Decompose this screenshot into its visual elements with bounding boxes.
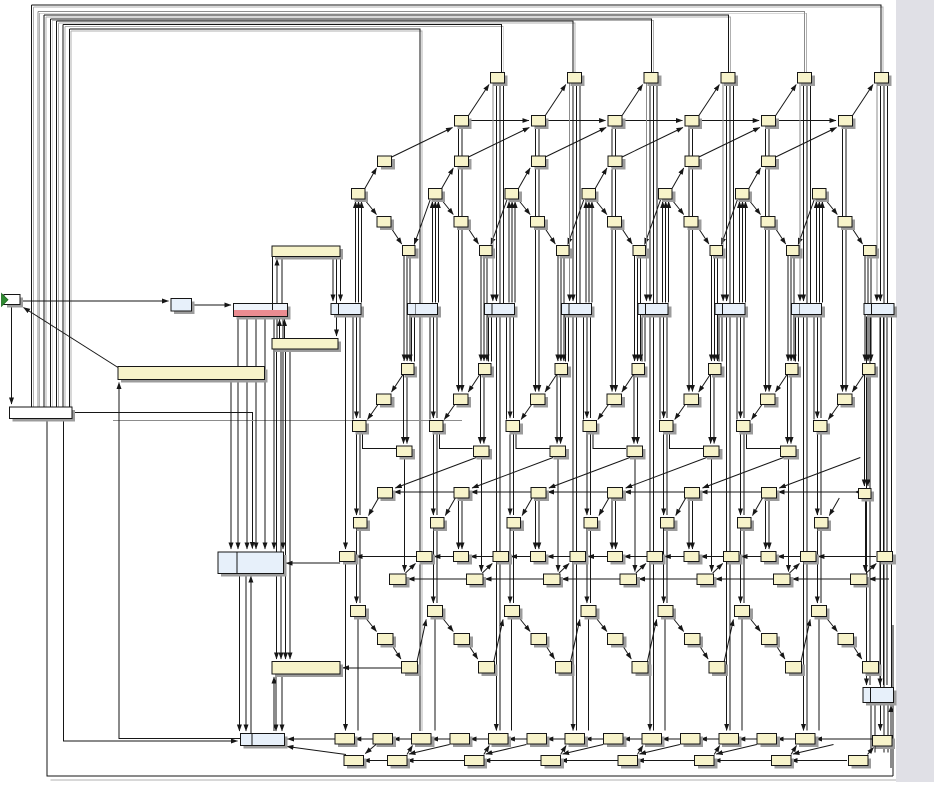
wire G6 up to D6 — [821, 202, 823, 303]
wire G4 up to D4 — [665, 202, 667, 303]
wire D5 to C5 diagonal — [748, 168, 761, 190]
node J0 — [353, 421, 370, 435]
wire T to U diagonal 2 — [486, 745, 527, 755]
wire F4 down to H4 — [713, 256, 715, 362]
wire H3 down to K3 — [633, 375, 635, 444]
wire M3 down to Q3 — [589, 529, 591, 604]
wire G4 down to H3 edge — [644, 315, 646, 362]
wire G3 up to D3 — [585, 202, 587, 303]
wire T chain arrow 2 — [432, 738, 436, 740]
node Q2 — [504, 606, 522, 620]
wire G5 down to J5 — [743, 315, 745, 419]
wire red register to blue selector 1 — [237, 317, 239, 550]
wire L6 to M6 diagonal — [829, 498, 839, 516]
node J6 — [813, 421, 830, 435]
node U3 — [541, 756, 564, 769]
wire H0 to I0 diagonal — [392, 375, 404, 393]
wire G3 down to J3 — [586, 315, 588, 419]
wire A2 column segment 1 — [645, 84, 647, 302]
node C0 — [378, 156, 395, 170]
wire C3 to B3 diagonal — [622, 128, 683, 158]
wire Q0 to R0 diagonal — [365, 617, 377, 632]
wire A5 column segment 3 — [883, 84, 885, 304]
wire start down to collector bar — [11, 305, 13, 405]
wire B3 to B4 horizontal — [699, 120, 759, 122]
wire L3 column down to N1 — [691, 500, 693, 550]
node C3 — [608, 156, 625, 170]
wire B4 column down to I — [765, 169, 767, 392]
wire H0 down to K0 — [403, 375, 405, 444]
wire bus line 7 left vertical — [68, 29, 70, 407]
node M3 — [584, 518, 601, 532]
wire B2 to B3 horizontal — [622, 120, 682, 122]
wire U to T diagonal 4 — [637, 746, 643, 755]
wire G0 down to N2x — [345, 315, 347, 550]
wire D6 to F5 diagonal — [798, 200, 814, 245]
node P0 — [390, 574, 410, 588]
wire G6 down to H5 edge — [795, 315, 797, 362]
node F3 — [633, 246, 649, 259]
wire L3 to M3 diagonal — [599, 498, 609, 516]
node E6 — [838, 217, 855, 231]
node Q4 — [658, 606, 676, 620]
node K2 — [550, 446, 569, 460]
wire Q6 down to bottom row — [818, 617, 820, 731]
wire E3 up to C3 — [688, 126, 690, 169]
wire H6 down to L6x — [863, 375, 865, 487]
wire T chain arrow 6 — [585, 738, 589, 740]
wire J5 to K5 connector — [747, 432, 780, 448]
node E5 — [761, 217, 778, 231]
wire B2 column down to I — [611, 169, 613, 392]
node N2x-0 — [340, 552, 359, 565]
wire P2 to N22 diagonal — [559, 564, 569, 574]
wire B0 to B1 horizontal — [469, 120, 529, 122]
mid wide bar — [272, 339, 341, 353]
wire T chain arrow 4 — [508, 738, 512, 740]
wire G1 down to J1 — [432, 315, 434, 419]
wire mid bar down to low bar — [276, 349, 278, 659]
wire gray horizontal net — [113, 419, 462, 421]
blue bar G1 — [408, 304, 441, 318]
node F2 — [556, 246, 572, 259]
wire B4 to A4 diagonal — [776, 85, 797, 116]
wire U to T diagonal 2 — [484, 746, 490, 755]
node D3 — [582, 189, 599, 203]
node D4 — [659, 189, 676, 203]
wire C5 to B5 diagonal — [776, 128, 837, 158]
node T3 — [450, 734, 473, 748]
wire D3 to F2 diagonal — [568, 200, 584, 245]
wire G5 down to H4 edge — [721, 315, 723, 362]
wire H1 to I1 diagonal — [468, 375, 480, 393]
wire H2 down to K2 — [560, 375, 562, 444]
wire A2 column to bottom row — [652, 315, 654, 731]
node T0 — [335, 734, 358, 748]
wire L2 column down to N1 — [611, 500, 613, 550]
wire F6 down to H6 — [867, 256, 869, 362]
node A0 — [491, 73, 508, 87]
start node IN — [2, 294, 24, 308]
wire G4 down to J4 extra — [659, 315, 661, 420]
collector bar — [10, 407, 76, 422]
node I1 — [454, 394, 472, 408]
wire bus line 4 shadow — [52, 21, 653, 73]
wire U chain arrow — [561, 760, 565, 762]
long wide bar — [118, 367, 268, 383]
wire F3 down to H3 — [640, 256, 642, 362]
node Q1 — [428, 606, 446, 620]
wire D5 to E5 diagonal — [749, 200, 761, 215]
wire U to T diagonal 1 — [407, 746, 413, 755]
wire right blue bar down — [874, 703, 876, 753]
wire F2 down to H2 — [560, 256, 562, 362]
wire G0 up to D0 — [358, 202, 360, 303]
wire F0 down to H0 — [409, 256, 411, 362]
node E4 — [684, 217, 701, 231]
wire A3 column to bottom row — [729, 315, 731, 731]
wire B3 to A3 diagonal — [699, 85, 720, 116]
wire K1 to L0 long diagonal — [395, 458, 476, 489]
wire G2 down to H1 edge — [488, 315, 490, 362]
wire G0 down to J0 — [356, 315, 358, 419]
wire top bar down to red register — [281, 257, 283, 304]
wire Q5 down to bottom row — [741, 617, 743, 731]
wire red register to blue selector 6 — [282, 317, 284, 550]
wire A3 column segment 2 — [726, 84, 728, 302]
wire A4 column to bottom row — [803, 315, 805, 731]
wire D0 to C0 diagonal — [364, 168, 377, 190]
wire U to T diagonal 3 — [561, 746, 567, 755]
wire E1 up to C1 — [534, 126, 536, 169]
wire U chain arrow — [484, 760, 488, 762]
wire N chain arrow b5 — [818, 556, 822, 558]
wire F6 down to H6 — [864, 256, 866, 362]
wire Q3 down to bottom row — [587, 617, 589, 731]
wire G2 up to D2 — [511, 202, 513, 303]
node N1-3 — [684, 552, 702, 565]
wire R3 to S3 diagonal — [622, 645, 631, 660]
node T9 — [680, 734, 703, 748]
wire T to U diagonal 6 — [793, 745, 834, 755]
wire bottom up to low bar — [273, 677, 275, 731]
wire A2 column to bottom row — [649, 315, 651, 731]
wire D4 to C4 diagonal — [671, 168, 684, 190]
wire G2 up to D2 — [514, 202, 516, 303]
wire G5 down to J5 — [740, 315, 742, 419]
node N2-3 — [647, 552, 666, 565]
wire P row chain — [408, 578, 889, 580]
wire P0 to N20 diagonal — [406, 564, 416, 574]
wire L4 column down to N1 — [768, 500, 770, 550]
node M1 — [430, 518, 447, 532]
wire Q4 down to bottom row — [664, 617, 666, 731]
wire G0 up to D0 — [361, 202, 363, 303]
node N1-2 — [607, 552, 625, 565]
wire L0 to M0 diagonal — [369, 498, 379, 516]
wire E3 to F3 diagonal — [621, 227, 632, 244]
wire right blue bar down — [887, 703, 889, 753]
wire K6 to L5 long diagonal — [779, 458, 860, 489]
input latch node — [171, 299, 195, 315]
wire A4 column segment 1 — [799, 84, 801, 302]
wire S2 to Q3 diagonal — [571, 620, 580, 662]
wire F1 down to H1 — [486, 256, 488, 362]
wire P1 to N21 diagonal — [482, 564, 492, 574]
node J1 — [429, 421, 446, 435]
wire G5 up to D5 — [745, 202, 747, 303]
blue bar G4 — [638, 304, 671, 318]
wire B1 to A1 diagonal — [545, 85, 566, 116]
node P4 — [697, 574, 717, 588]
wire B2 to A2 diagonal — [622, 85, 643, 116]
wire L0 column down to N1 — [461, 500, 463, 550]
wire L row chain — [394, 491, 857, 493]
wire T chain arrow 9 — [700, 738, 704, 740]
wire B0 to A0 diagonal — [469, 85, 490, 116]
node R2 — [531, 634, 550, 648]
wire J6 down to M6 — [820, 432, 822, 515]
wire Q1 down to bottom row — [434, 617, 436, 731]
wire bus line 4 left vertical shadow — [51, 21, 53, 407]
wire K3 to L2 long diagonal — [549, 458, 630, 489]
node T13 — [872, 736, 895, 750]
node D0 — [352, 189, 369, 203]
wire A5 column segment 2 — [879, 84, 881, 302]
wire T to U diagonal 5 — [716, 745, 757, 755]
node B1 — [531, 116, 548, 130]
node P1 — [467, 574, 487, 588]
wire E2 up to C2 — [615, 126, 617, 169]
wire N chain arrow a0 — [470, 556, 474, 558]
wire L4 column down to N1 — [765, 500, 767, 550]
wire F5 down to H5 — [787, 256, 789, 362]
wire red register to blue selector 3 — [255, 317, 257, 550]
wire T chain arrow 1 — [393, 738, 397, 740]
wire G3 up to D3 — [588, 202, 590, 303]
wire H5 down to K5 — [790, 375, 792, 444]
wire bottom bar up to blue selector — [250, 576, 252, 734]
wire B0 column down to I — [461, 169, 463, 392]
node H3 — [632, 364, 648, 378]
wire N chain arrow a3 — [701, 556, 705, 558]
wire G6 down to J6 — [816, 315, 818, 419]
wire bus line 6 top horizontal + drop — [63, 25, 501, 73]
wire start to input node — [21, 300, 169, 302]
node S4 — [709, 662, 728, 677]
wire R0 to S0 diagonal — [392, 645, 401, 660]
wire right column down to blue bar B 3 — [883, 317, 885, 686]
node J4 — [660, 421, 677, 435]
wire right blue bar down — [883, 703, 885, 753]
node N2-5 — [800, 552, 819, 565]
wire L2 to M2 diagonal — [522, 498, 532, 516]
node C5 — [762, 156, 779, 170]
wire L chain arrow 6 — [855, 491, 859, 493]
node A2 — [644, 73, 661, 87]
wire right blue bar down — [870, 703, 872, 753]
node L1 — [454, 488, 472, 502]
wire bottom to long bar feedback — [119, 383, 240, 739]
node D5 — [736, 189, 753, 203]
wire A0 column to bottom row — [495, 315, 497, 731]
wire A1 column segment 1 — [569, 84, 571, 302]
wire bus line 4 left vertical — [49, 19, 51, 407]
wire L5 to M5 diagonal — [753, 498, 763, 516]
wire F6 down to H6 — [870, 256, 872, 362]
wire T to U diagonal 3 — [563, 745, 604, 755]
node U2 — [464, 756, 487, 769]
wire bus line 5 top horizontal + drop — [57, 21, 573, 72]
wire A0 column segment 4 — [502, 84, 504, 304]
node C1 — [455, 156, 472, 170]
wire G1 up to D1 — [431, 202, 433, 303]
wire B2 column down to I — [615, 169, 617, 392]
node P3 — [620, 574, 640, 588]
wire long bar to blue selector a — [230, 380, 232, 550]
node L3 — [608, 488, 626, 502]
wire Q5 to R5 diagonal — [749, 617, 761, 632]
wire H1 down to K1 — [479, 375, 481, 444]
wire A3 column segment 4 — [733, 84, 735, 304]
node D1 — [428, 189, 445, 203]
wire R2 to S2 diagonal — [545, 645, 554, 660]
wire A1 column segment 2 — [572, 84, 574, 302]
node L2 — [531, 488, 549, 502]
wire U chain arrow — [407, 760, 411, 762]
node N2-4 — [724, 552, 743, 565]
node I0 — [377, 394, 395, 408]
node B4 — [762, 116, 779, 130]
wire B1 column down to I — [538, 169, 540, 392]
wire T to U diagonal 4 — [639, 745, 680, 755]
wire T chain arrow 8 — [662, 738, 666, 740]
wire G2 down to H1 edge — [491, 315, 493, 362]
node S2 — [555, 662, 574, 677]
wire top bar to mid bar — [336, 257, 338, 337]
wire D0 to E0 diagonal — [365, 200, 377, 215]
wire A4 column segment 4 — [810, 84, 812, 304]
wire T chain arrow 3 — [470, 738, 474, 740]
node I4 — [684, 394, 702, 408]
wire Q6 to R6 diagonal — [825, 617, 837, 632]
wire P chain arrow 6 — [869, 578, 873, 580]
wire P5 to N25 diagonal — [790, 564, 800, 574]
wire G6 down to J6 extra — [813, 315, 815, 420]
wire U6 to T13 diagonal — [868, 748, 874, 755]
wire L1 column down to N1 — [534, 500, 536, 550]
node M2 — [507, 518, 524, 532]
wire A2 column segment 3 — [652, 84, 654, 304]
wire L0 column down to N1 — [458, 500, 460, 550]
wire S0 to low bar horizontal — [343, 667, 402, 669]
wire G4 down to J4 — [666, 315, 668, 419]
wire L chain arrow 4 — [701, 491, 705, 493]
wire Q0 down to bottom row — [357, 617, 359, 731]
wire F2 down to H2 — [557, 256, 559, 362]
wire bus line 4 top horizontal + drop — [50, 19, 651, 73]
wire G6 up to D6 — [815, 202, 817, 303]
node N1-1 — [531, 552, 549, 565]
wire E4 to F4 diagonal — [698, 227, 709, 244]
node T5 — [527, 734, 550, 748]
wire K3 down to P3 — [634, 457, 636, 572]
node L0 — [377, 488, 395, 502]
wire N chain arrow a1 — [547, 556, 551, 558]
wire G3 up to D3 — [591, 202, 593, 303]
wire right column down to blue bar B 2 — [879, 317, 881, 686]
node R5 — [761, 634, 780, 648]
wire A0 column segment 1 — [492, 84, 494, 302]
wire G5 down to J5 extra — [736, 315, 738, 420]
wire bus line 3 left vertical shadow — [45, 17, 47, 407]
node N2-1 — [493, 552, 512, 565]
node S1 — [479, 662, 498, 677]
wire G4 up to D4 — [668, 202, 670, 303]
wire L chain arrow 3 — [624, 491, 628, 493]
wire A3 column segment 3 — [729, 84, 731, 304]
node B3 — [685, 116, 702, 130]
wire M2 down to Q2 — [513, 529, 515, 604]
node A5 — [875, 73, 892, 87]
wire T chain arrow 0 — [355, 738, 359, 740]
wire F3 down to H3 — [634, 256, 636, 362]
wire bus line 1 left vertical shadow — [32, 7, 34, 407]
wire collector bar right output — [72, 412, 252, 548]
wire D1 to F0 diagonal — [414, 200, 430, 245]
node T1 — [373, 734, 396, 748]
wire Q4 to R4 diagonal — [672, 617, 684, 632]
wire L4 to M4 diagonal — [676, 498, 686, 516]
node L4 — [685, 488, 703, 502]
node K0 — [397, 446, 416, 460]
wire B3 column down to I — [688, 169, 690, 392]
node H0 — [402, 364, 418, 378]
wire G0 up to D0 — [355, 202, 357, 303]
wire red register to blue selector 5 — [273, 317, 275, 550]
node N1-0 — [454, 552, 472, 565]
wire bus line 3 top horizontal + drop — [44, 15, 728, 73]
wire R1 to S1 diagonal — [468, 645, 477, 660]
wire N2x down to first bottom node — [345, 562, 347, 731]
bottom blue bar L2 — [241, 734, 288, 749]
wire bus line 5 left vertical — [56, 21, 58, 407]
node U1 — [388, 756, 411, 769]
node J5 — [737, 421, 754, 435]
node T7 — [604, 734, 627, 748]
wire J4 down to M4 — [663, 432, 665, 515]
node N2-0 — [416, 552, 435, 565]
blue selector bar L1 — [218, 552, 287, 577]
wire E1 up to C1 — [538, 126, 540, 169]
node H1 — [478, 364, 494, 378]
node R3 — [608, 634, 627, 648]
wire T to U diagonal 1 — [409, 745, 450, 755]
node H4 — [709, 364, 725, 378]
wire right up arrow — [890, 706, 892, 769]
wire bus line 7 top horizontal + drop — [69, 29, 420, 731]
node M6 — [814, 518, 831, 532]
node E2 — [531, 217, 548, 231]
node U4 — [618, 756, 641, 769]
wire K2 to L1 long diagonal — [472, 458, 553, 489]
wire G3 down to H2 edge — [564, 315, 566, 362]
wire G1 up to D1 — [437, 202, 439, 303]
wire M1 down to Q1 — [436, 529, 438, 604]
wire F5 down to H5 — [790, 256, 792, 362]
wire F0 down to H0 — [403, 256, 405, 362]
wire F3 down to H3 — [637, 256, 639, 362]
